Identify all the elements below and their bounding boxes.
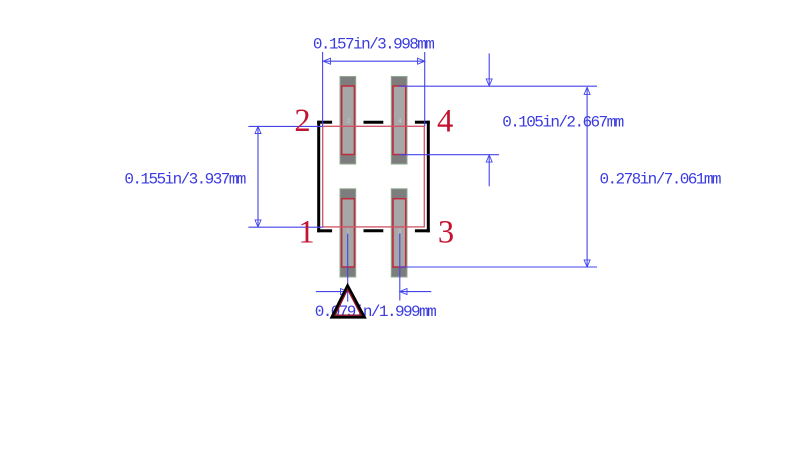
svg-text:1: 1 bbox=[346, 229, 350, 236]
svg-text:4: 4 bbox=[437, 104, 453, 140]
dimension 0.105in/2.667mm (pad length, right of pad 4) bbox=[399, 53, 597, 186]
dimension 0.157in/3.998mm (body width, top) bbox=[323, 52, 425, 126]
pad 2 (top-left SMD pad) bbox=[340, 77, 356, 165]
dimension 0.155in/3.937mm (body height, left) bbox=[248, 126, 322, 227]
svg-text:3: 3 bbox=[438, 214, 454, 250]
svg-text:4: 4 bbox=[398, 118, 402, 125]
svg-text:2: 2 bbox=[347, 118, 351, 125]
pad 1 (bottom-left SMD pad) bbox=[340, 189, 356, 277]
assembly outline (thin red rectangle) bbox=[323, 126, 425, 227]
svg-text:3: 3 bbox=[398, 229, 402, 236]
dimension 0.278in/7.061mm (overall pad span, far right) bbox=[400, 87, 598, 267]
dimension 0.079in/1.999mm (pad pitch, bottom) bbox=[316, 233, 431, 302]
pad 4 (top-right SMD pad) bbox=[391, 77, 407, 165]
svg-text:0.155in/3.937mm: 0.155in/3.937mm bbox=[124, 170, 246, 188]
pad 3 (bottom-right SMD pad) bbox=[391, 189, 407, 277]
svg-text:0.278in/7.061mm: 0.278in/7.061mm bbox=[600, 170, 722, 188]
svg-text:2: 2 bbox=[294, 103, 310, 139]
pin 1 indicator triangle bbox=[332, 286, 365, 317]
svg-text:0.157in/3.998mm: 0.157in/3.998mm bbox=[313, 36, 435, 54]
svg-text:0.105in/2.667mm: 0.105in/2.667mm bbox=[502, 114, 624, 132]
package body outline (black dashed rectangle) bbox=[317, 121, 430, 233]
svg-text:1: 1 bbox=[298, 214, 314, 250]
